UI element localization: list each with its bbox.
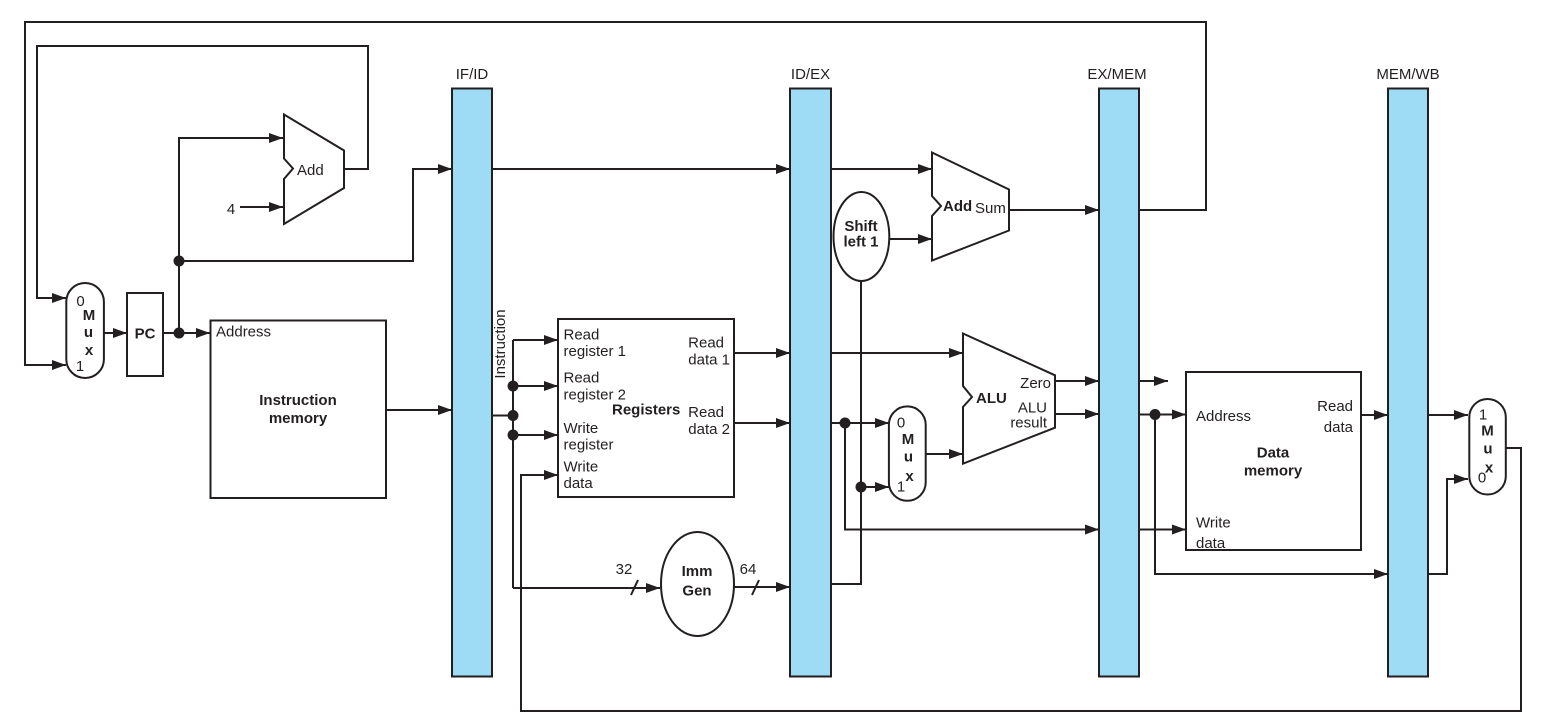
svg-text:Read: Read	[564, 326, 600, 343]
svg-text:Registers: Registers	[612, 402, 680, 419]
svg-text:data: data	[1196, 535, 1226, 552]
svg-text:result: result	[1010, 415, 1048, 432]
svg-text:Address: Address	[216, 324, 271, 341]
svg-text:u: u	[84, 324, 93, 341]
svg-text:M: M	[83, 307, 96, 324]
svg-text:MEM/WB: MEM/WB	[1376, 66, 1439, 83]
svg-text:Write: Write	[1196, 515, 1231, 532]
svg-text:Address: Address	[1196, 408, 1251, 425]
svg-text:EX/MEM: EX/MEM	[1087, 66, 1146, 83]
svg-text:M: M	[902, 431, 915, 448]
svg-text:Read: Read	[688, 404, 724, 421]
svg-text:register 1: register 1	[564, 343, 627, 360]
svg-text:x: x	[85, 342, 94, 359]
svg-text:0: 0	[897, 415, 905, 432]
svg-text:data 1: data 1	[688, 351, 730, 368]
svg-text:64: 64	[740, 561, 757, 578]
svg-text:M: M	[1481, 422, 1494, 439]
svg-text:Sum: Sum	[975, 200, 1006, 217]
svg-text:Instruction: Instruction	[259, 392, 337, 409]
svg-text:4: 4	[227, 201, 235, 218]
svg-text:left 1: left 1	[843, 234, 878, 251]
svg-text:Read: Read	[688, 335, 724, 352]
svg-text:data: data	[1324, 419, 1354, 436]
svg-text:PC: PC	[135, 326, 156, 343]
svg-text:memory: memory	[269, 410, 328, 427]
svg-text:32: 32	[616, 561, 633, 578]
svg-text:Imm: Imm	[682, 563, 713, 580]
svg-text:memory: memory	[1244, 463, 1303, 480]
svg-text:Read: Read	[1317, 398, 1353, 415]
svg-text:Gen: Gen	[682, 583, 711, 600]
svg-text:1: 1	[897, 479, 905, 496]
svg-text:Add: Add	[297, 162, 324, 179]
svg-text:Data: Data	[1257, 445, 1290, 462]
svg-text:u: u	[904, 449, 913, 466]
svg-text:u: u	[1483, 441, 1492, 458]
svg-text:IF/ID: IF/ID	[456, 66, 489, 83]
svg-text:1: 1	[1479, 407, 1487, 424]
svg-text:1: 1	[76, 358, 84, 375]
svg-text:Shift: Shift	[844, 218, 877, 235]
svg-text:Instruction: Instruction	[492, 309, 509, 378]
svg-text:0: 0	[1478, 469, 1486, 486]
svg-text:Read: Read	[564, 370, 600, 387]
svg-text:Add: Add	[943, 198, 972, 215]
svg-text:ID/EX: ID/EX	[791, 66, 830, 83]
svg-text:Write: Write	[564, 420, 599, 437]
svg-text:Zero: Zero	[1020, 375, 1051, 392]
svg-text:x: x	[1485, 460, 1494, 477]
svg-text:register: register	[564, 437, 614, 454]
svg-text:Write: Write	[564, 458, 599, 475]
svg-text:ALU: ALU	[976, 390, 1007, 407]
svg-text:data: data	[564, 475, 594, 492]
svg-text:x: x	[905, 468, 914, 485]
svg-text:data 2: data 2	[688, 421, 730, 438]
